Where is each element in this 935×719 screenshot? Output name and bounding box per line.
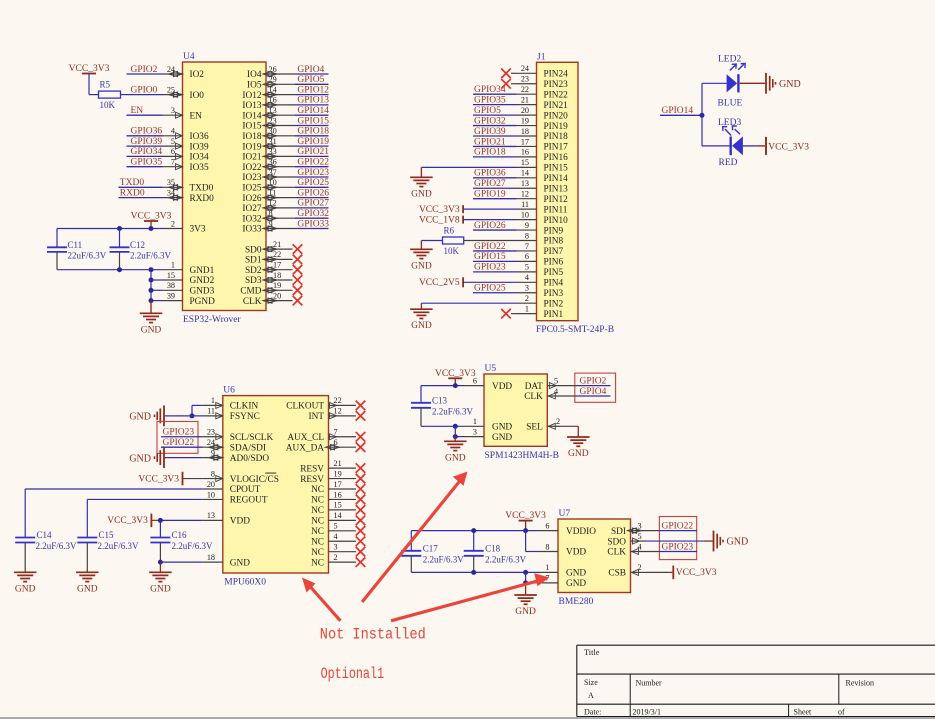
svg-text:IO14: IO14 <box>242 111 261 121</box>
capacitor C11 22uF/6.3V <box>47 229 107 270</box>
net label GPIO25 <box>473 284 517 294</box>
svg-text:GPIO26: GPIO26 <box>474 221 506 231</box>
svg-text:TXD0: TXD0 <box>190 184 214 194</box>
wire U7 GND rail <box>411 571 538 573</box>
U4 pin 7 IO35 <box>163 158 209 173</box>
junction at GND7 <box>523 580 528 585</box>
svg-text:IO0: IO0 <box>190 91 205 101</box>
svg-text:GND: GND <box>230 558 250 568</box>
svg-text:21: 21 <box>273 240 281 249</box>
resistor R5 10K <box>99 80 121 111</box>
svg-text:VCC_3V3: VCC_3V3 <box>505 511 546 521</box>
wire VDD rail <box>421 385 464 387</box>
svg-text:GPIO15: GPIO15 <box>474 252 506 262</box>
svg-text:NC: NC <box>311 548 324 558</box>
wire GND stack vertical <box>151 270 163 301</box>
svg-text:PIN6: PIN6 <box>544 258 564 268</box>
svg-text:IO34: IO34 <box>190 153 209 163</box>
svg-text:A: A <box>588 691 594 700</box>
J1 pin 1 PIN1 <box>517 304 564 319</box>
sheet bottom edge strip <box>0 717 935 719</box>
net label GPIO23 <box>295 168 329 178</box>
svg-text:12: 12 <box>521 190 529 199</box>
U7 pin 7 GND <box>538 574 586 589</box>
net label GPIO19 <box>295 137 329 147</box>
capacitor C13 2.2uF/6.3V <box>411 386 474 427</box>
net label GPIO22 <box>295 158 329 168</box>
capacitor C12 2.2uF/6.3V <box>110 229 172 270</box>
U4 pin 26 IO4 <box>247 65 295 80</box>
ground at R6 <box>410 249 433 271</box>
svg-text:Sheet: Sheet <box>794 708 813 717</box>
U4 pin 10 IO25 <box>242 178 295 193</box>
svg-text:U5: U5 <box>485 364 497 374</box>
svg-text:2.2uF/6.3V: 2.2uF/6.3V <box>130 250 172 260</box>
svg-text:TXD0: TXD0 <box>120 178 145 188</box>
svg-text:GND: GND <box>492 433 512 443</box>
svg-text:PIN10: PIN10 <box>544 216 569 226</box>
wire 3V3 rail <box>57 228 163 230</box>
svg-text:22: 22 <box>273 250 281 259</box>
LED D LED2 BLUE <box>718 55 746 109</box>
svg-text:GND3: GND3 <box>190 287 215 297</box>
svg-text:NC: NC <box>311 506 324 516</box>
svg-text:14: 14 <box>334 511 342 520</box>
svg-text:5: 5 <box>554 376 558 385</box>
svg-text:10: 10 <box>521 210 529 219</box>
svg-text:IO36: IO36 <box>190 132 209 142</box>
svg-text:GPIO2: GPIO2 <box>580 376 607 386</box>
J1 pin 12 PIN12 <box>517 190 569 205</box>
svg-text:GPIO39: GPIO39 <box>131 137 163 147</box>
net label GPIO4 <box>295 65 329 75</box>
junction U5 GND3 <box>453 434 458 439</box>
svg-text:CSB: CSB <box>608 569 626 579</box>
U6 pin 20 CPOUT <box>203 480 261 495</box>
svg-text:15: 15 <box>521 158 529 167</box>
svg-text:GPIO4: GPIO4 <box>297 65 324 75</box>
J1 pin 8 PIN8 <box>517 231 564 246</box>
svg-text:GPIO21: GPIO21 <box>474 137 506 147</box>
svg-text:GPIO19: GPIO19 <box>297 137 329 147</box>
svg-text:VCC_3V3: VCC_3V3 <box>676 568 717 578</box>
svg-text:2: 2 <box>171 219 175 228</box>
svg-text:22: 22 <box>521 85 529 94</box>
net label GPIO32 <box>295 209 329 219</box>
svg-text:NC: NC <box>311 496 324 506</box>
svg-text:SDO: SDO <box>607 537 626 547</box>
U4 pin 8 IO32 <box>242 209 295 224</box>
J1 pin 23 PIN23 <box>517 75 569 90</box>
no-connect X on U6 pin 2 <box>356 557 366 567</box>
J1 pin 20 PIN20 <box>517 106 569 121</box>
svg-text:CLKIN: CLKIN <box>230 402 259 412</box>
svg-text:16: 16 <box>334 490 342 499</box>
svg-text:IO25: IO25 <box>242 184 261 194</box>
net label GPIO33 <box>295 219 329 229</box>
no-connect X on J1 pin 24 <box>501 69 516 79</box>
net label RXD0 <box>119 188 163 198</box>
wire SEL to ground <box>560 426 578 437</box>
svg-text:RXD0: RXD0 <box>120 188 145 198</box>
power VCC_3V3 (U7) <box>505 511 546 521</box>
svg-text:SDA/SDI: SDA/SDI <box>230 443 266 453</box>
U7 pin 5 SDO <box>607 532 646 547</box>
svg-text:10K: 10K <box>100 100 116 110</box>
svg-text:PIN8: PIN8 <box>544 237 564 247</box>
J1 pin 9 PIN9 <box>517 221 564 236</box>
title block frame <box>577 645 935 716</box>
U4 pin 19 CMD <box>240 281 292 296</box>
svg-text:GND: GND <box>515 607 536 617</box>
ground at LED2 <box>766 73 801 94</box>
svg-text:AUX_DA: AUX_DA <box>286 443 325 453</box>
no-connect X on U6 pin 12 <box>356 411 366 421</box>
annotation arrow to U5 ground <box>362 472 467 603</box>
U5 pin 4 CLK <box>524 387 558 402</box>
junction VDDIO at VCC <box>523 528 528 533</box>
net label GPIO14 <box>660 106 702 116</box>
highlight box GPIO22/GPIO23 <box>659 517 696 560</box>
svg-text:NC: NC <box>311 485 324 495</box>
U6 pin 3 NC <box>311 543 356 558</box>
svg-text:18: 18 <box>273 271 281 280</box>
svg-text:2: 2 <box>556 417 560 426</box>
svg-text:PIN17: PIN17 <box>544 143 569 153</box>
svg-text:GPIO2: GPIO2 <box>131 65 158 75</box>
svg-text:GPIO35: GPIO35 <box>474 95 506 105</box>
U6 pin 11 FSYNC <box>203 407 260 422</box>
wire GND rail <box>57 269 163 271</box>
J1 pin 22 PIN22 <box>517 85 569 100</box>
no-connect X on U6 pin 21 <box>356 463 366 473</box>
U4 pin 9 IO33 <box>242 219 295 234</box>
svg-text:17: 17 <box>273 261 281 270</box>
wire GND1 to GND3 <box>455 426 464 436</box>
IC U5 SPM1423HM4H-B microphone <box>484 364 559 461</box>
svg-text:FSYNC: FSYNC <box>230 412 260 422</box>
svg-text:IO5: IO5 <box>247 81 262 91</box>
U4 pin 5 IO39 <box>163 137 209 152</box>
svg-text:39: 39 <box>167 291 175 300</box>
svg-text:2.2uF/6.3V: 2.2uF/6.3V <box>172 541 214 551</box>
svg-text:SD3: SD3 <box>245 276 262 286</box>
net label GPIO12 <box>295 85 329 95</box>
U4 pin 30 IO18 <box>242 127 295 142</box>
wire FSYNC to ground <box>165 415 203 417</box>
svg-text:AD0/SDO: AD0/SDO <box>230 454 270 464</box>
svg-text:1: 1 <box>545 563 549 572</box>
U6 pin 9 AD0/SDO <box>203 448 270 463</box>
U4 pin 37 IO23 <box>242 168 295 183</box>
J1 pin 5 PIN5 <box>517 263 564 278</box>
svg-text:18: 18 <box>521 127 529 136</box>
net label GPIO26 <box>473 221 517 231</box>
net label GPIO36 <box>473 169 517 179</box>
capacitor C15 2.2uF/6.3V <box>77 530 139 572</box>
svg-text:LED3: LED3 <box>718 118 741 128</box>
svg-text:R5: R5 <box>100 80 111 90</box>
net label GPIO23 <box>161 428 203 438</box>
svg-text:11: 11 <box>207 407 215 416</box>
ground at J1 pin 2 <box>410 309 433 331</box>
net label GPIO15 <box>473 252 517 262</box>
svg-text:C16: C16 <box>172 530 188 540</box>
svg-text:SPM1423HM4H-B: SPM1423HM4H-B <box>485 451 559 461</box>
svg-text:GPIO35: GPIO35 <box>131 158 163 168</box>
wire VCC_3V3 stem <box>150 221 152 229</box>
U6 pin 18 GND <box>203 553 250 568</box>
ground below U7 <box>514 583 537 617</box>
junction GPIO14 branch <box>700 113 705 118</box>
svg-text:3: 3 <box>525 284 529 293</box>
svg-text:PIN15: PIN15 <box>544 164 569 174</box>
J1 pin 3 PIN3 <box>517 284 564 299</box>
J1 pin 16 PIN16 <box>517 148 569 163</box>
svg-text:of: of <box>838 708 845 717</box>
U4 pin 18 SD3 <box>245 271 293 286</box>
svg-text:C18: C18 <box>485 543 501 553</box>
svg-text:VLOGIC/CS: VLOGIC/CS <box>230 475 279 485</box>
U6 pin 15 NC <box>311 501 356 516</box>
U6 pin 12 INT <box>309 407 357 422</box>
svg-text:2.2uF/6.3V: 2.2uF/6.3V <box>423 554 465 564</box>
svg-text:GPIO22: GPIO22 <box>163 438 195 448</box>
U6 pin 16 NC <box>311 490 356 505</box>
svg-text:IO39: IO39 <box>190 142 209 152</box>
no-connect X on U6 pin 16 <box>356 495 366 505</box>
U4 pin 16 IO13 <box>242 96 295 111</box>
svg-text:VCC_2V5: VCC_2V5 <box>419 278 460 288</box>
svg-text:7: 7 <box>525 242 529 251</box>
no-connect X on U6 pin 14 <box>356 516 366 526</box>
net label GPIO27 <box>473 179 517 189</box>
svg-text:GPIO14: GPIO14 <box>297 106 329 116</box>
no-connect X on U6 pin 22 <box>356 401 366 411</box>
U4 pin 39 PGND <box>163 291 216 306</box>
svg-text:13: 13 <box>207 511 215 520</box>
U4 pin 22 SD1 <box>245 250 293 265</box>
annotation text Optional1 <box>321 665 385 683</box>
svg-text:GND1: GND1 <box>190 266 215 276</box>
svg-text:GPIO22: GPIO22 <box>662 521 694 531</box>
svg-text:GND: GND <box>411 321 432 331</box>
svg-text:19: 19 <box>521 116 529 125</box>
U6 pin 14 NC <box>311 511 356 526</box>
U5 pin 6 VDD <box>464 376 512 391</box>
annotation arrow to U6 <box>302 578 340 621</box>
capacitor C17 2.2uF/6.3V <box>401 531 464 573</box>
capacitor C14 2.2uF/6.3V <box>15 530 77 572</box>
svg-text:GPIO14: GPIO14 <box>662 106 694 116</box>
IC U6 MPU60X0 <box>223 386 329 588</box>
svg-text:NC: NC <box>311 537 324 547</box>
U6 pin 13 VDD <box>203 511 250 526</box>
svg-text:BME280: BME280 <box>559 597 594 607</box>
svg-text:GPIO34: GPIO34 <box>131 147 163 157</box>
net label GPIO23 <box>473 263 517 273</box>
LED D LED3 RED <box>718 118 743 168</box>
svg-text:VCC_3V3: VCC_3V3 <box>768 142 809 152</box>
net label GPIO23 (U7) <box>659 542 697 552</box>
svg-text:GPIO12: GPIO12 <box>297 85 329 95</box>
annotation text Not Installed <box>320 626 426 644</box>
wire VCC stem U7 <box>525 521 527 531</box>
svg-text:IO2: IO2 <box>190 70 205 80</box>
svg-text:2: 2 <box>334 553 338 562</box>
svg-text:VCC_3V3: VCC_3V3 <box>107 516 148 526</box>
svg-text:11: 11 <box>521 200 529 209</box>
svg-text:NC: NC <box>311 517 324 527</box>
svg-text:VCC_3V3: VCC_3V3 <box>138 474 179 484</box>
svg-text:GND: GND <box>411 261 432 271</box>
U4 pin 4 IO36 <box>163 127 209 142</box>
U7 pin 3 SDI <box>611 521 659 536</box>
U6 pin 19 RESV <box>300 469 356 484</box>
svg-text:CLKOUT: CLKOUT <box>286 402 324 412</box>
wire VCC to VDD <box>526 531 538 552</box>
power VCC_3V3 (U7 CSB) <box>673 566 716 580</box>
wire LED branch vertical <box>701 83 703 146</box>
svg-text:GND: GND <box>411 189 432 199</box>
no-connect X on U6 pin 6 <box>356 442 366 452</box>
svg-text:5: 5 <box>334 522 338 531</box>
no-connect X on U6 pin 5 <box>356 526 366 536</box>
net label GPIO22 (U7) <box>659 521 697 531</box>
net label GPIO21 <box>295 147 329 157</box>
no-connect X on U6 pin 3 <box>356 547 366 557</box>
U6 pin 1 CLKIN <box>203 396 259 411</box>
svg-text:VCC_3V3: VCC_3V3 <box>419 205 460 215</box>
svg-text:IO27: IO27 <box>242 204 261 214</box>
svg-text:PIN3: PIN3 <box>544 289 564 299</box>
svg-text:Size: Size <box>584 678 598 687</box>
svg-text:21: 21 <box>521 95 529 104</box>
svg-text:IO18: IO18 <box>242 132 261 142</box>
wire AD0/SDO to ground <box>165 457 203 459</box>
U4 pin 23 IO15 <box>242 116 295 131</box>
J1 pin 19 PIN19 <box>517 116 569 131</box>
svg-text:PIN19: PIN19 <box>544 122 569 132</box>
svg-text:GND: GND <box>129 453 151 464</box>
net label GPIO2 <box>558 376 611 386</box>
svg-text:2.2uF/6.3V: 2.2uF/6.3V <box>36 541 78 551</box>
power VCC_3V3 (U6 VDD) <box>107 514 160 528</box>
power VCC_1V8 (J1 pin 10) <box>419 215 517 225</box>
svg-text:5: 5 <box>525 263 529 272</box>
svg-text:IO13: IO13 <box>242 101 261 111</box>
svg-text:CMD: CMD <box>240 287 261 297</box>
svg-text:C13: C13 <box>432 395 448 405</box>
title block text A <box>588 691 594 700</box>
U4 pin 1 GND1 <box>163 261 215 276</box>
no-connect X on U6 pin 15 <box>356 505 366 515</box>
svg-text:GPIO22: GPIO22 <box>474 242 506 252</box>
U4 pin 21 SD0 <box>245 240 293 255</box>
ground below C15 <box>76 572 99 594</box>
U4 pin 13 IO14 <box>242 106 295 121</box>
ground below U4 <box>140 301 163 336</box>
svg-text:AUX_CL: AUX_CL <box>287 433 324 443</box>
net label GPIO35 <box>473 95 517 105</box>
svg-text:GPIO18: GPIO18 <box>297 127 329 137</box>
svg-text:5: 5 <box>638 532 642 541</box>
net label GPIO27 <box>295 199 329 209</box>
svg-text:GPIO0: GPIO0 <box>131 85 158 95</box>
title block text Number <box>636 679 663 688</box>
svg-text:22uF/6.3V: 22uF/6.3V <box>68 250 107 260</box>
svg-text:1: 1 <box>211 396 215 405</box>
svg-text:PIN22: PIN22 <box>544 90 569 100</box>
wire VDDIO rail <box>411 530 538 532</box>
U6 pin 24 SDA/SDI <box>203 438 266 453</box>
svg-text:Title: Title <box>584 648 600 657</box>
svg-text:VDD: VDD <box>230 517 250 527</box>
junction GND rail at C18 <box>471 570 476 575</box>
no-connect X on U4 pin 19 <box>293 286 303 296</box>
J1 pin 24 PIN24 <box>517 64 569 79</box>
ground below U5 <box>444 437 467 464</box>
junction on 3V3 rail at C12 <box>117 226 122 231</box>
svg-text:GND: GND <box>141 325 162 335</box>
U4 pin 3 EN <box>163 106 203 121</box>
svg-text:PIN5: PIN5 <box>544 268 564 278</box>
J1 pin 17 PIN17 <box>517 137 569 152</box>
svg-text:GPIO26: GPIO26 <box>297 188 329 198</box>
wire U5 GND rail <box>421 425 464 427</box>
svg-text:4: 4 <box>554 387 558 396</box>
svg-text:20: 20 <box>521 106 529 115</box>
J1 pin 10 PIN10 <box>517 210 569 225</box>
svg-text:1: 1 <box>525 304 529 313</box>
svg-text:DAT: DAT <box>525 382 543 392</box>
svg-text:IO33: IO33 <box>242 225 261 235</box>
net label GPIO34 <box>473 85 517 95</box>
svg-text:GND: GND <box>566 579 586 589</box>
svg-text:2019/3/1: 2019/3/1 <box>633 708 661 717</box>
svg-text:U6: U6 <box>223 386 235 396</box>
U4 pin 33 IO21 <box>242 147 295 162</box>
svg-text:GPIO13: GPIO13 <box>297 96 329 106</box>
ground at U5 SEL <box>567 437 590 459</box>
svg-text:PIN9: PIN9 <box>544 226 564 236</box>
svg-text:6: 6 <box>545 521 549 530</box>
svg-text:23: 23 <box>207 428 215 437</box>
power VCC_3V3 (VLOGIC) <box>138 472 202 486</box>
svg-text:CLK: CLK <box>243 297 262 307</box>
svg-text:PIN12: PIN12 <box>544 195 569 205</box>
svg-text:7: 7 <box>334 428 338 437</box>
svg-text:2.2uF/6.3V: 2.2uF/6.3V <box>485 554 527 564</box>
svg-text:GPIO21: GPIO21 <box>297 147 329 157</box>
svg-text:GPIO39: GPIO39 <box>474 127 506 137</box>
U4 pin 36 IO22 <box>242 158 295 173</box>
wire LED2 to ground <box>740 82 765 84</box>
svg-text:8: 8 <box>525 231 529 240</box>
power VCC_3V3 (R5 pullup) <box>69 64 110 74</box>
no-connect X on U6 pin 4 <box>356 536 366 546</box>
svg-text:U7: U7 <box>559 509 571 519</box>
U4 pin 17 SD2 <box>245 261 293 276</box>
U4 pin 31 IO19 <box>242 137 295 152</box>
svg-text:VDD: VDD <box>566 548 586 558</box>
U4 pin 14 IO12 <box>242 85 295 100</box>
svg-text:12: 12 <box>334 407 342 416</box>
no-connect X on U6 pin 19 <box>356 474 366 484</box>
J1 pin 18 PIN18 <box>517 127 569 142</box>
wire SDO to ground <box>646 540 713 542</box>
U5 pin 1 GND <box>464 417 512 432</box>
